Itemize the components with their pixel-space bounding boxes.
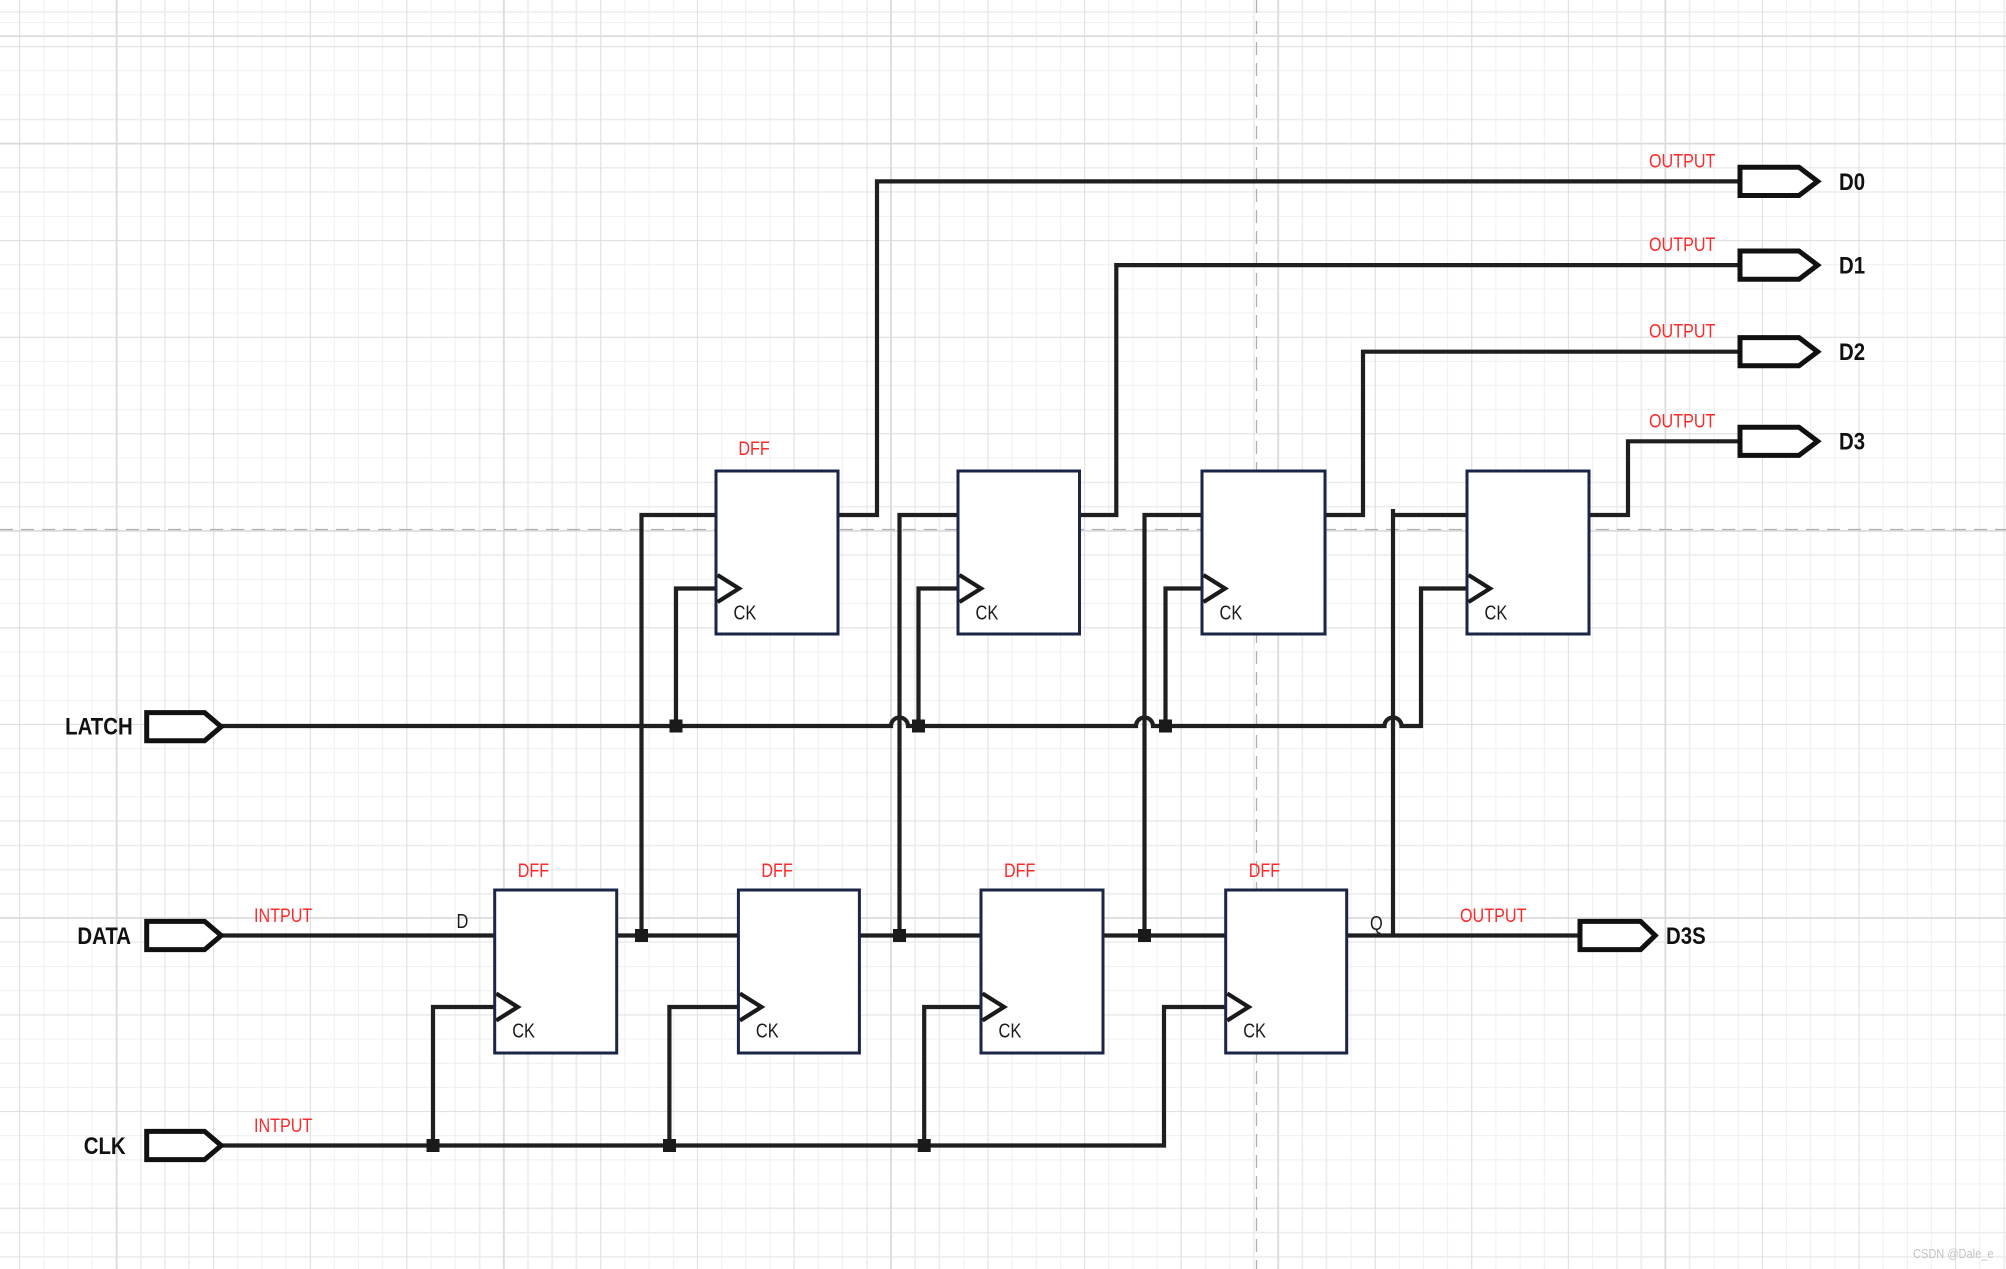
- B4 clock triangle: [1227, 994, 1249, 1021]
- DFF T4 box: [1467, 471, 1589, 634]
- wire DATA input to B1: [221, 933, 496, 937]
- svg-text:D0: D0: [1839, 168, 1865, 195]
- wire LATCH tap to T3.CK: [1166, 589, 1204, 727]
- svg-text:DFF: DFF: [518, 860, 550, 882]
- wire T4.Q to D3 port: [1588, 441, 1740, 515]
- wire data tap up to T1.D: [642, 515, 718, 936]
- wire LATCH bus with hops: [221, 589, 1468, 727]
- wire Q tap up to T4.D: [1393, 509, 1468, 936]
- DFF B4 box: [1226, 890, 1347, 1053]
- wire LATCH tap to T1.CK: [676, 589, 717, 727]
- junction on LATCH at T3 tap: [1159, 720, 1172, 733]
- wire LATCH tap to T2.CK: [919, 589, 960, 727]
- wire data tap up to T3.D: [1145, 515, 1204, 936]
- svg-text:CK: CK: [999, 1019, 1022, 1042]
- port DATA: [147, 921, 222, 949]
- svg-text:CK: CK: [756, 1019, 779, 1042]
- DFF B1 box: [495, 890, 617, 1053]
- B1 clock triangle: [496, 994, 518, 1021]
- T2 clock triangle: [960, 575, 982, 602]
- svg-text:INTPUT: INTPUT: [254, 905, 313, 927]
- svg-text:CSDN @Dale_e: CSDN @Dale_e: [1913, 1246, 1994, 1261]
- svg-text:D2: D2: [1839, 338, 1865, 365]
- svg-text:INTPUT: INTPUT: [254, 1115, 313, 1137]
- port D1: [1740, 251, 1818, 279]
- wire B3.Q to B4.D: [1102, 933, 1227, 937]
- B2 clock triangle: [740, 994, 762, 1021]
- junction on LATCH at T1 tap: [670, 720, 683, 733]
- wire B2.Q to B3.D: [858, 933, 982, 937]
- wire CLK tap to B2.CK: [669, 1007, 740, 1146]
- B3 clock triangle: [983, 994, 1005, 1021]
- svg-text:DFF: DFF: [1004, 860, 1036, 882]
- port CLK: [147, 1131, 222, 1159]
- port D3: [1740, 427, 1818, 455]
- svg-text:D3: D3: [1839, 428, 1865, 455]
- svg-text:OUTPUT: OUTPUT: [1649, 410, 1716, 432]
- DFF B3 box: [981, 890, 1103, 1053]
- junction on DATA at T1 tap: [635, 929, 648, 942]
- svg-text:CLK: CLK: [84, 1132, 126, 1159]
- wire B1.Q to B2.D: [615, 933, 740, 937]
- T1 clock triangle: [718, 575, 740, 602]
- svg-text:OUTPUT: OUTPUT: [1460, 905, 1527, 927]
- DFF T3 box: [1202, 471, 1325, 634]
- svg-text:D3S: D3S: [1666, 922, 1706, 949]
- svg-text:CK: CK: [734, 601, 757, 624]
- DFF B2 box: [738, 890, 859, 1053]
- svg-text:DATA: DATA: [77, 922, 131, 949]
- wire CLK bus: [221, 1007, 1227, 1146]
- svg-text:CK: CK: [512, 1019, 535, 1042]
- junction on LATCH at T2 tap: [912, 720, 925, 733]
- wire CLK tap to B1.CK: [433, 1007, 496, 1146]
- svg-text:OUTPUT: OUTPUT: [1649, 150, 1716, 172]
- wire CLK tap to B3.CK: [924, 1007, 982, 1146]
- svg-text:DFF: DFF: [738, 438, 770, 460]
- svg-text:OUTPUT: OUTPUT: [1649, 234, 1716, 256]
- T3 clock triangle: [1204, 575, 1226, 602]
- DFF T2 box: [958, 471, 1080, 634]
- port D0: [1740, 167, 1818, 195]
- wire T2.Q to D1 port: [1078, 265, 1740, 515]
- svg-text:Q: Q: [1370, 911, 1383, 934]
- wire T3.Q to D2 port: [1324, 352, 1740, 515]
- svg-text:CK: CK: [1243, 1019, 1266, 1042]
- axis dashed horizontal: [0, 529, 2006, 531]
- junction on DATA at T2 tap: [893, 929, 906, 942]
- wire T1.Q to D0 port: [837, 181, 1740, 515]
- port D2: [1740, 338, 1818, 366]
- axis dashed vertical: [1256, 0, 1258, 1269]
- junction on CLK at B1 tap: [427, 1139, 440, 1152]
- svg-text:CK: CK: [1220, 601, 1243, 624]
- wire data tap up to T2.D: [900, 515, 960, 936]
- svg-text:D1: D1: [1839, 252, 1865, 279]
- DFF T1 box: [716, 471, 838, 634]
- junction on CLK at B3 tap: [918, 1139, 931, 1152]
- svg-text:DFF: DFF: [761, 860, 793, 882]
- svg-text:D: D: [457, 909, 469, 932]
- port D3S: [1580, 921, 1655, 949]
- svg-text:CK: CK: [976, 601, 999, 624]
- junction on DATA at T3 tap: [1138, 929, 1151, 942]
- svg-text:CK: CK: [1485, 601, 1508, 624]
- svg-text:LATCH: LATCH: [65, 713, 133, 740]
- T4 clock triangle: [1469, 575, 1491, 602]
- port LATCH: [147, 713, 222, 741]
- svg-text:DFF: DFF: [1249, 860, 1281, 882]
- wire B4.Q to D3S port: [1345, 933, 1580, 937]
- svg-text:OUTPUT: OUTPUT: [1649, 320, 1716, 342]
- junction on CLK at B2 tap: [663, 1139, 676, 1152]
